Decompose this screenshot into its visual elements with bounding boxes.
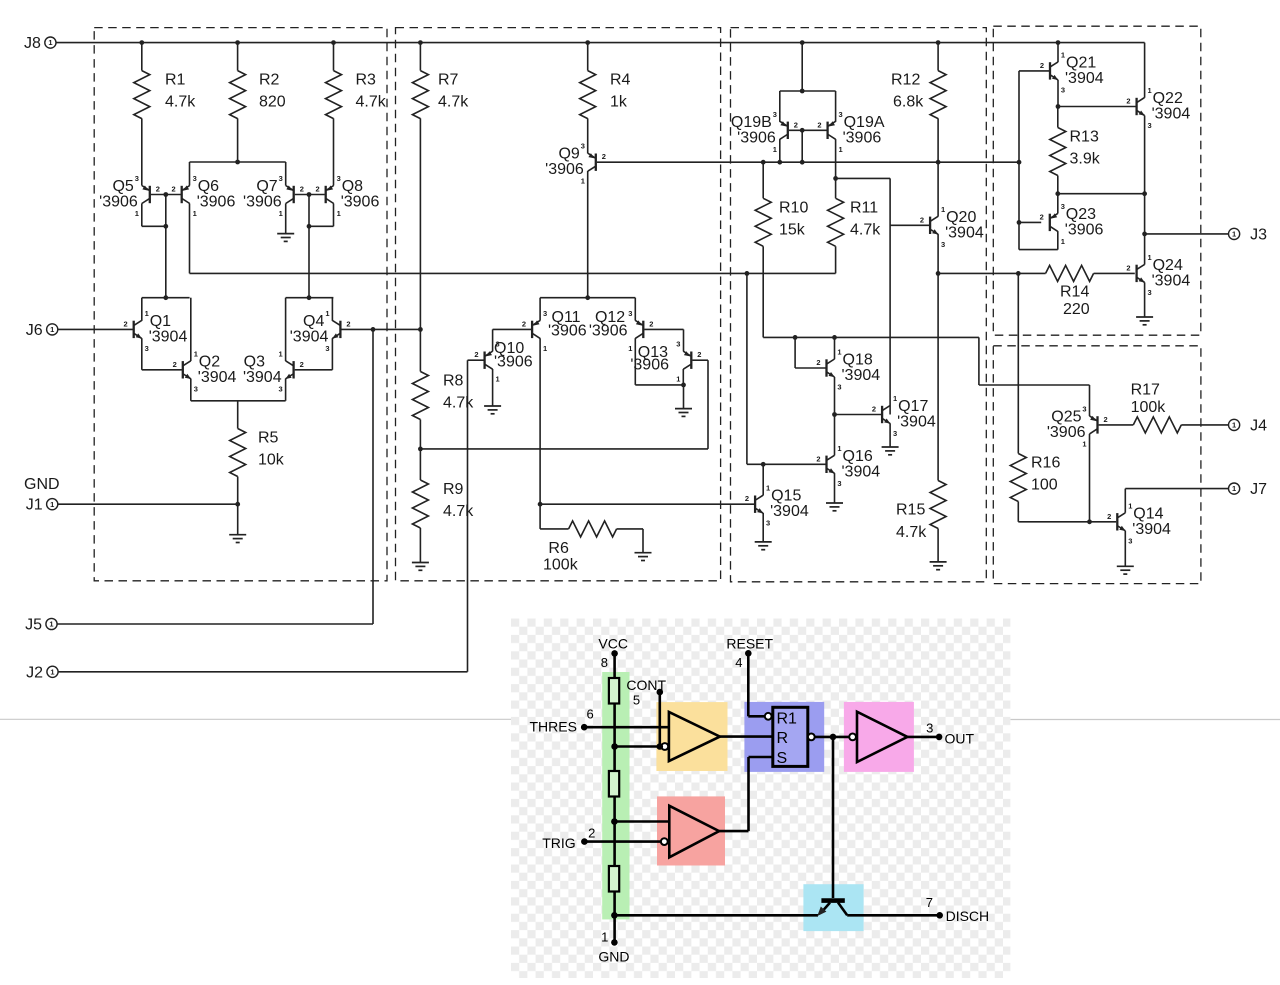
svg-text:1: 1	[194, 349, 198, 358]
svg-text:Q19A: Q19A	[844, 114, 885, 131]
svg-text:J5: J5	[25, 617, 42, 634]
svg-text:R13: R13	[1070, 129, 1099, 146]
svg-text:R5: R5	[258, 430, 279, 447]
svg-text:3: 3	[1061, 202, 1065, 211]
svg-text:3: 3	[1128, 536, 1132, 545]
svg-text:2: 2	[1104, 415, 1108, 424]
svg-text:'3904: '3904	[945, 224, 984, 241]
svg-text:3: 3	[1148, 121, 1152, 130]
svg-text:3: 3	[581, 142, 585, 151]
svg-text:4.7k: 4.7k	[356, 94, 387, 111]
svg-text:2: 2	[872, 405, 876, 414]
svg-text:'3904: '3904	[897, 414, 936, 431]
svg-text:Q25: Q25	[1051, 408, 1081, 425]
svg-text:2: 2	[794, 120, 798, 129]
svg-text:GND: GND	[598, 949, 629, 965]
svg-text:R17: R17	[1131, 382, 1160, 399]
svg-text:1: 1	[1128, 501, 1132, 510]
svg-text:1: 1	[496, 375, 500, 384]
svg-text:R2: R2	[259, 72, 280, 89]
svg-text:2: 2	[649, 319, 653, 328]
svg-text:GND: GND	[24, 476, 60, 493]
svg-text:3: 3	[279, 384, 283, 393]
svg-text:1: 1	[325, 309, 329, 318]
svg-text:THRES: THRES	[530, 719, 577, 735]
svg-text:2: 2	[588, 825, 595, 840]
svg-text:2: 2	[602, 152, 606, 161]
svg-text:J2: J2	[26, 664, 43, 681]
svg-text:820: 820	[259, 94, 286, 111]
svg-text:3: 3	[773, 110, 777, 119]
svg-text:4.7k: 4.7k	[165, 94, 196, 111]
svg-text:3: 3	[337, 174, 341, 183]
svg-text:'3906: '3906	[494, 354, 533, 371]
svg-text:3: 3	[766, 519, 770, 528]
svg-text:3: 3	[839, 110, 843, 119]
svg-text:J7: J7	[1250, 481, 1267, 498]
svg-text:1: 1	[1232, 484, 1236, 493]
svg-text:2: 2	[156, 185, 160, 194]
svg-text:2: 2	[346, 319, 350, 328]
svg-text:3: 3	[893, 429, 897, 438]
svg-text:Q2: Q2	[199, 353, 220, 370]
svg-text:100k: 100k	[1131, 399, 1167, 416]
svg-text:2: 2	[816, 358, 820, 367]
svg-text:DISCH: DISCH	[946, 908, 990, 924]
svg-text:1: 1	[766, 484, 770, 493]
svg-text:Q18: Q18	[843, 352, 873, 369]
svg-text:Q1: Q1	[150, 313, 171, 330]
svg-text:Q5: Q5	[112, 178, 133, 195]
svg-text:4.7k: 4.7k	[850, 221, 881, 238]
svg-text:3: 3	[543, 309, 547, 318]
svg-text:R15: R15	[896, 502, 925, 519]
svg-text:R1: R1	[165, 72, 186, 89]
svg-text:Q23: Q23	[1066, 206, 1096, 223]
svg-text:Q7: Q7	[256, 178, 277, 195]
svg-text:1: 1	[837, 348, 841, 357]
svg-text:1: 1	[1232, 230, 1236, 239]
svg-text:1: 1	[543, 344, 547, 353]
svg-text:'3906: '3906	[1065, 221, 1104, 238]
svg-text:R4: R4	[610, 72, 631, 89]
svg-text:'3906: '3906	[341, 194, 380, 211]
svg-text:1: 1	[193, 209, 197, 218]
svg-text:1: 1	[50, 500, 54, 509]
svg-text:100k: 100k	[543, 557, 579, 574]
svg-text:1: 1	[893, 394, 897, 403]
svg-text:J4: J4	[1250, 417, 1267, 434]
svg-text:2: 2	[474, 350, 478, 359]
svg-text:J6: J6	[26, 322, 43, 339]
svg-text:'3906: '3906	[545, 161, 584, 178]
svg-text:Q19B: Q19B	[731, 114, 772, 131]
svg-text:3: 3	[926, 721, 933, 736]
svg-text:R14: R14	[1060, 284, 1089, 301]
svg-text:'3904: '3904	[842, 463, 881, 480]
svg-text:1: 1	[941, 205, 945, 214]
svg-text:'3904: '3904	[290, 328, 329, 345]
svg-text:J8: J8	[24, 35, 41, 52]
svg-text:R11: R11	[850, 199, 878, 216]
svg-text:3: 3	[837, 479, 841, 488]
svg-text:'3906: '3906	[589, 323, 628, 340]
svg-text:2: 2	[522, 319, 526, 328]
svg-text:2: 2	[1040, 61, 1044, 70]
svg-text:Q17: Q17	[898, 398, 928, 415]
svg-text:1: 1	[337, 209, 341, 218]
svg-text:R16: R16	[1031, 455, 1060, 472]
svg-text:1: 1	[773, 145, 777, 154]
svg-text:'3906: '3906	[843, 129, 882, 146]
svg-text:Q16: Q16	[843, 448, 873, 465]
svg-text:2: 2	[124, 319, 128, 328]
svg-text:Q6: Q6	[198, 178, 219, 195]
svg-text:1: 1	[48, 38, 52, 47]
svg-text:Q15: Q15	[771, 488, 801, 505]
svg-text:3: 3	[496, 340, 500, 349]
svg-text:'3906: '3906	[548, 323, 587, 340]
svg-text:R9: R9	[443, 481, 464, 498]
svg-text:1: 1	[50, 325, 54, 334]
svg-text:3: 3	[145, 344, 149, 353]
svg-text:1: 1	[49, 620, 53, 629]
svg-text:1: 1	[279, 349, 283, 358]
svg-text:'3904: '3904	[1152, 272, 1191, 289]
svg-text:4.7k: 4.7k	[438, 94, 469, 111]
svg-text:2: 2	[816, 454, 820, 463]
svg-text:1: 1	[628, 344, 632, 353]
svg-text:2: 2	[300, 360, 304, 369]
svg-text:TRIG: TRIG	[542, 835, 575, 851]
svg-text:1: 1	[676, 375, 680, 384]
svg-text:VCC: VCC	[598, 636, 628, 652]
svg-text:2: 2	[316, 185, 320, 194]
svg-text:8: 8	[601, 655, 608, 670]
svg-text:'3904: '3904	[243, 369, 282, 386]
svg-text:Q22: Q22	[1153, 90, 1183, 107]
svg-text:1: 1	[145, 309, 149, 318]
svg-text:2: 2	[697, 350, 701, 359]
svg-text:3: 3	[941, 240, 945, 249]
svg-text:'3904: '3904	[149, 328, 188, 345]
svg-text:2: 2	[1040, 212, 1044, 221]
svg-text:3: 3	[325, 344, 329, 353]
svg-text:10k: 10k	[258, 452, 285, 469]
svg-text:R3: R3	[356, 72, 377, 89]
svg-text:Q20: Q20	[946, 209, 976, 226]
svg-text:4.7k: 4.7k	[896, 524, 927, 541]
svg-text:'3904: '3904	[770, 503, 809, 520]
svg-text:J3: J3	[1250, 226, 1267, 243]
svg-text:1: 1	[1061, 237, 1065, 246]
svg-text:3.9k: 3.9k	[1070, 151, 1101, 168]
svg-text:R8: R8	[443, 373, 464, 390]
svg-text:R7: R7	[438, 72, 459, 89]
svg-text:3: 3	[1148, 288, 1152, 297]
svg-text:1: 1	[279, 209, 283, 218]
svg-text:'3904: '3904	[1065, 70, 1104, 87]
svg-text:1: 1	[839, 145, 843, 154]
svg-text:RESET: RESET	[726, 636, 773, 652]
svg-text:5: 5	[633, 692, 640, 707]
svg-text:'3904: '3904	[198, 369, 237, 386]
svg-text:3: 3	[279, 174, 283, 183]
svg-text:1: 1	[1061, 50, 1065, 59]
svg-text:1: 1	[601, 930, 608, 945]
svg-text:1: 1	[1148, 253, 1152, 262]
svg-text:OUT: OUT	[945, 730, 975, 746]
svg-text:Q3: Q3	[244, 353, 265, 370]
svg-text:6: 6	[587, 707, 594, 722]
svg-text:'3906: '3906	[737, 129, 776, 146]
svg-text:2: 2	[173, 360, 177, 369]
svg-text:'3904: '3904	[1132, 521, 1171, 538]
svg-text:R6: R6	[548, 540, 569, 557]
svg-text:2: 2	[920, 215, 924, 224]
svg-text:2: 2	[745, 494, 749, 503]
svg-text:7: 7	[926, 895, 933, 910]
svg-text:3: 3	[1082, 404, 1086, 413]
svg-text:3: 3	[628, 309, 632, 318]
svg-text:Q21: Q21	[1066, 54, 1096, 71]
svg-text:15k: 15k	[779, 221, 806, 238]
svg-text:2: 2	[172, 185, 176, 194]
svg-text:4: 4	[735, 655, 742, 670]
svg-text:1: 1	[50, 667, 54, 676]
svg-text:Q24: Q24	[1153, 257, 1183, 274]
svg-text:R12: R12	[891, 72, 920, 89]
svg-text:4.7k: 4.7k	[443, 395, 474, 412]
svg-text:3: 3	[194, 384, 198, 393]
svg-text:'3906: '3906	[243, 194, 282, 211]
svg-text:3: 3	[837, 383, 841, 392]
svg-text:'3906: '3906	[197, 194, 236, 211]
svg-text:100: 100	[1031, 477, 1058, 494]
svg-text:'3906: '3906	[99, 194, 138, 211]
svg-text:2: 2	[300, 185, 304, 194]
svg-text:3: 3	[193, 174, 197, 183]
svg-text:2: 2	[1107, 512, 1111, 521]
svg-text:4.7k: 4.7k	[443, 503, 474, 520]
svg-text:1: 1	[837, 444, 841, 453]
svg-text:1: 1	[1148, 86, 1152, 95]
svg-text:1k: 1k	[610, 94, 628, 111]
svg-text:S: S	[777, 750, 788, 767]
svg-text:2: 2	[1126, 263, 1130, 272]
svg-text:CONT: CONT	[626, 677, 666, 693]
svg-text:R1: R1	[777, 711, 798, 728]
svg-text:6.8k: 6.8k	[893, 94, 924, 111]
svg-text:Q9: Q9	[558, 146, 579, 163]
svg-text:Q4: Q4	[303, 313, 324, 330]
svg-text:J1: J1	[26, 497, 43, 514]
svg-text:3: 3	[135, 174, 139, 183]
svg-text:3: 3	[676, 340, 680, 349]
svg-text:1: 1	[135, 209, 139, 218]
svg-text:2: 2	[1126, 97, 1130, 106]
svg-text:2: 2	[817, 120, 821, 129]
svg-text:3: 3	[1061, 85, 1065, 94]
svg-text:1: 1	[1232, 421, 1236, 430]
svg-text:'3904: '3904	[1152, 106, 1191, 123]
svg-text:Q14: Q14	[1133, 505, 1163, 522]
svg-text:R10: R10	[779, 199, 808, 216]
svg-text:Q8: Q8	[342, 178, 363, 195]
svg-text:R: R	[777, 730, 789, 747]
svg-text:'3906: '3906	[1047, 424, 1086, 441]
svg-text:'3904: '3904	[842, 367, 881, 384]
svg-text:220: 220	[1063, 301, 1090, 318]
svg-text:1: 1	[581, 177, 585, 186]
svg-text:1: 1	[1082, 439, 1086, 448]
svg-text:'3906: '3906	[630, 357, 669, 374]
